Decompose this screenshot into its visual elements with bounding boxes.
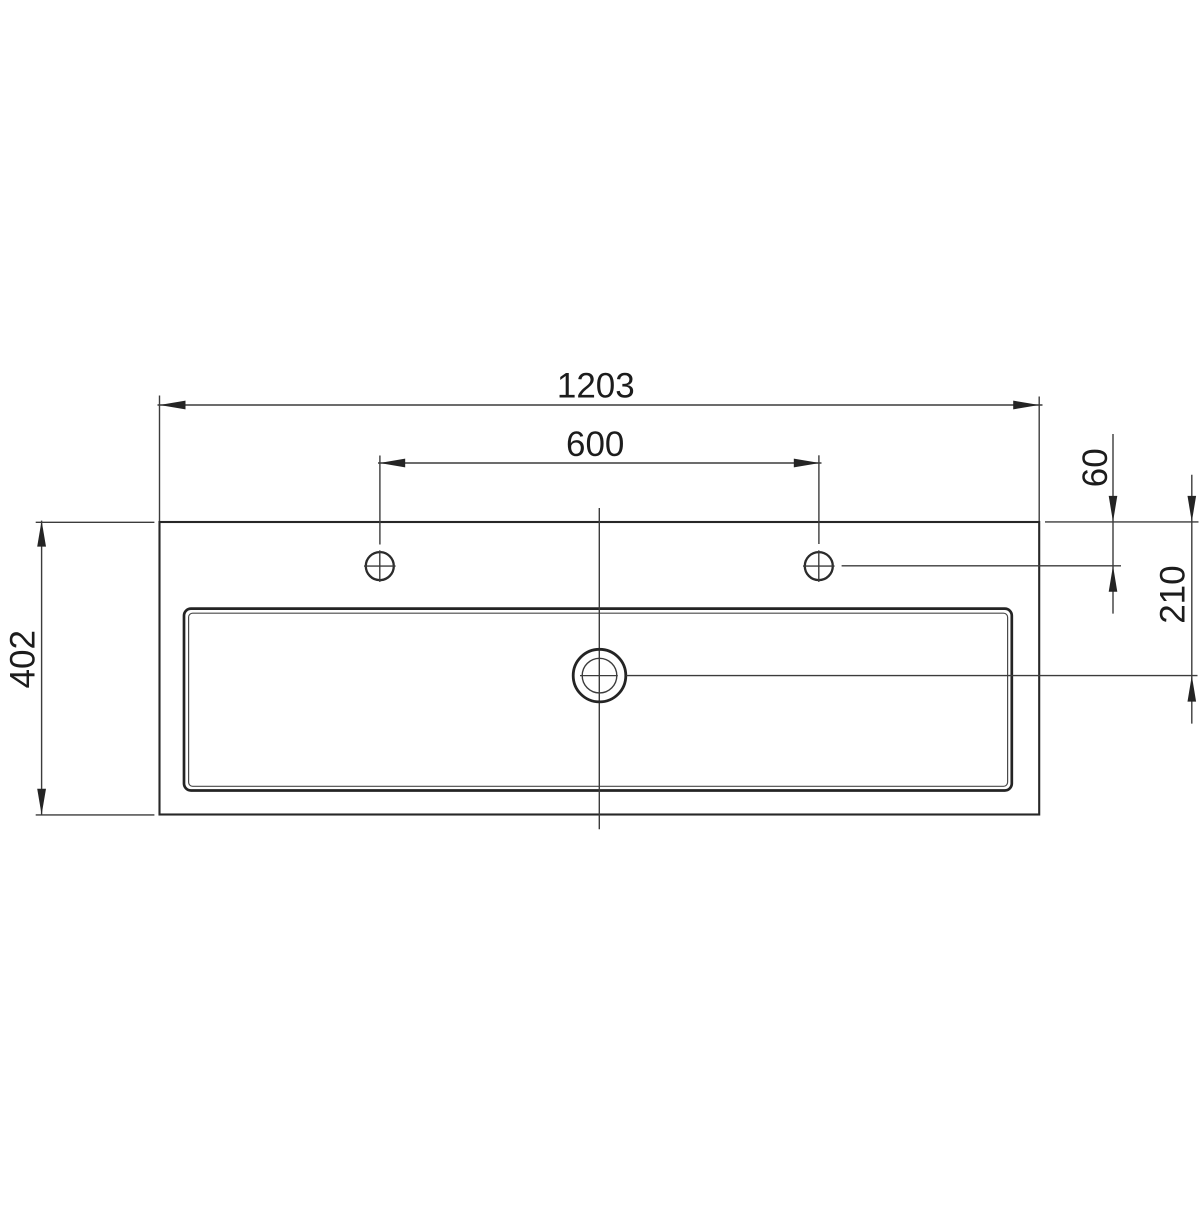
- dim 1203 text: [557, 367, 635, 406]
- drain crosshair: [580, 675, 618, 677]
- dim 60 line: [842, 434, 1199, 614]
- dim 210 line: [1188, 475, 1197, 724]
- dim 402 line: [36, 521, 155, 815]
- svg-text:402: 402: [4, 630, 43, 688]
- dim 210 text: [1153, 565, 1192, 623]
- faucet hole right: [803, 550, 835, 582]
- dim 1203 line: [158, 396, 1043, 522]
- svg-text:1203: 1203: [557, 367, 635, 406]
- dim 600 text: [566, 425, 624, 464]
- dim 600 line: [378, 455, 822, 544]
- drain inner circle: [582, 658, 617, 693]
- drain center extension line: [626, 675, 1197, 677]
- faucet hole left: [364, 550, 396, 582]
- center line: [598, 508, 600, 829]
- drain outer circle: [573, 649, 626, 702]
- basin outer rim: [184, 609, 1012, 791]
- svg-text:600: 600: [566, 425, 624, 464]
- dim 402 text: [4, 630, 43, 688]
- sink outer rect: [160, 522, 1040, 815]
- svg-text:210: 210: [1153, 565, 1192, 623]
- dim 60 text: [1076, 448, 1115, 487]
- basin inner rim: [189, 613, 1008, 786]
- svg-text:60: 60: [1076, 448, 1115, 487]
